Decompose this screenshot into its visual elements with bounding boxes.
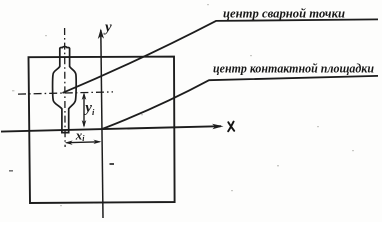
svg-text:y: y [103, 20, 112, 36]
X axis arrowhead [212, 124, 224, 130]
yi dimension line with arrows [83, 95, 85, 127]
svg-text:yi: yi [83, 100, 95, 117]
svg-text:центр контактной площадки: центр контактной площадки [213, 62, 374, 76]
leader 2: contact pad center [102, 76, 378, 129]
scan speckle [9, 170, 13, 172]
xi dimension line with arrows [67, 141, 100, 144]
horizontal centerline through weld point (dash-dot) [18, 92, 113, 94]
substrate square outline [29, 57, 175, 203]
component vertical centerline (dash-dot) [64, 28, 67, 147]
component body (glass diode package) [53, 47, 77, 133]
Y axis [101, 30, 103, 218]
Y axis arrowhead [98, 29, 104, 40]
axis label X (drawn) [228, 122, 234, 132]
leader 1: weld point center [63, 19, 379, 93]
X axis [1, 126, 221, 131]
svg-text:центр сварной точки: центр сварной точки [223, 7, 345, 21]
scan speckle [110, 163, 115, 165]
scan speckles (faint) [12, 4, 354, 206]
